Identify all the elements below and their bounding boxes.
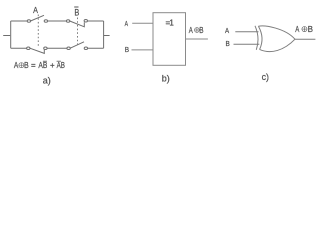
svg-text:A: A [189,26,194,35]
svg-text:AB: AB [38,61,47,70]
svg-text:B: B [24,61,29,70]
svg-text:=: = [31,61,36,70]
svg-text:AB: AB [57,61,65,70]
svg-text:a): a) [43,75,51,85]
svg-text:A: A [225,28,229,35]
svg-text:b): b) [162,74,170,84]
svg-text:+: + [50,61,55,70]
svg-text:B: B [125,47,130,54]
svg-text:A: A [33,6,38,15]
svg-text:A: A [295,25,300,34]
svg-text:c): c) [262,72,269,82]
svg-text:B: B [199,26,203,35]
svg-text:A: A [125,21,129,28]
svg-text:B: B [226,41,231,48]
svg-text:B: B [308,25,313,34]
svg-text:1: 1 [169,19,174,28]
svg-text:B: B [74,8,79,18]
svg-text:A: A [14,61,19,70]
